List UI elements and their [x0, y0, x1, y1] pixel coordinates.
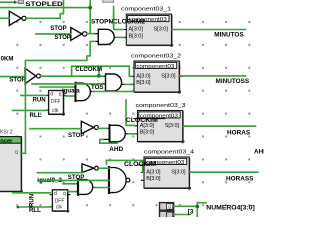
svg-text:component03_2: component03_2 [131, 54, 181, 60]
svg-text:A[3:0]: A[3:0] [136, 73, 151, 79]
svg-text:STOP: STOP [68, 174, 84, 181]
svg-text:B[3:0]: B[3:0] [129, 33, 144, 39]
svg-text:[3: [3 [188, 208, 194, 215]
svg-text:RLL: RLL [29, 207, 41, 214]
svg-text:S[3:0]: S[3:0] [161, 73, 176, 79]
svg-text:HORAS: HORAS [227, 130, 251, 137]
svg-text:iguala: iguala [62, 87, 80, 94]
svg-text:DFF: DFF [51, 99, 61, 105]
svg-text:0: 0 [168, 204, 171, 210]
svg-text:S[3:0]: S[3:0] [165, 123, 180, 129]
svg-text:component03_4: component03_4 [144, 150, 194, 156]
svg-text:B[3:0]: B[3:0] [146, 176, 161, 182]
svg-text:AHD: AHD [254, 149, 264, 156]
svg-text:MINUTOSS: MINUTOSS [216, 78, 250, 85]
svg-text:clk: clk [56, 205, 63, 211]
svg-text:A[3:0]: A[3:0] [146, 169, 161, 175]
svg-text:AHD: AHD [109, 146, 123, 153]
svg-text:RUN: RUN [29, 194, 36, 207]
svg-text:0KM: 0KM [1, 55, 14, 62]
svg-text:DFF: DFF [55, 198, 65, 204]
svg-text:TOS: TOS [91, 84, 103, 91]
svg-text:CLCOKM: CLCOKM [75, 66, 102, 73]
svg-text:d: d [54, 191, 57, 197]
svg-text:d: d [50, 92, 53, 98]
svg-text:q: q [15, 149, 18, 155]
svg-text:STOPLED: STOPLED [25, 1, 63, 8]
svg-text:NUMERO4[3:0]: NUMERO4[3:0] [206, 204, 255, 211]
svg-text:ncer: ncer [0, 138, 13, 144]
svg-text:STOP: STOP [50, 25, 66, 32]
svg-text:MINUTOS: MINUTOS [214, 32, 244, 39]
svg-text:STOP: STOP [54, 34, 70, 41]
svg-text:component03: component03 [136, 64, 174, 70]
svg-text:q: q [63, 191, 66, 197]
svg-text:component03_3: component03_3 [136, 103, 186, 109]
svg-text:HORASS: HORASS [226, 176, 254, 183]
svg-text:STOP: STOP [9, 77, 25, 84]
svg-text:B[3:0]: B[3:0] [140, 130, 155, 136]
svg-text:CLOCKIM: CLOCKIM [126, 117, 158, 124]
svg-text:RLL: RLL [30, 112, 42, 119]
svg-text:B[3:0]: B[3:0] [136, 80, 151, 86]
svg-text:STOPNCLOCKM2: STOPNCLOCKM2 [91, 18, 146, 25]
svg-text:clk: clk [52, 108, 59, 114]
svg-text:A[3:0]: A[3:0] [129, 27, 144, 33]
svg-text:component03_1: component03_1 [121, 7, 171, 13]
svg-text:STOP: STOP [68, 132, 84, 139]
svg-text:RUN: RUN [33, 96, 46, 103]
svg-text:S[3:0]: S[3:0] [154, 27, 169, 33]
svg-text:KSr 2: KSr 2 [0, 130, 13, 136]
svg-text:S[3:0]: S[3:0] [171, 169, 186, 175]
